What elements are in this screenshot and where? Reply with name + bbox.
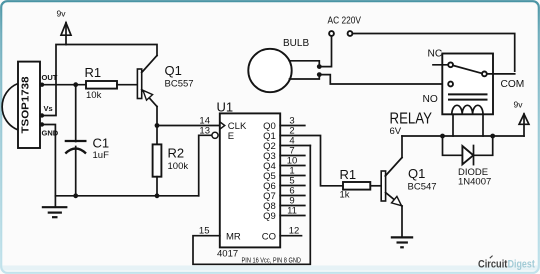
relay switch arm	[453, 66, 482, 74]
node: OUT junction	[73, 82, 78, 87]
wire: 9v rail to Vs riser	[42, 45, 66, 116]
svg-text:9v: 9v	[514, 100, 524, 110]
svg-text:4017: 4017	[217, 249, 238, 260]
wire: collector rail to 9v	[402, 135, 524, 137]
pin GND of TSOP1738	[40, 122, 59, 137]
svg-text:11: 11	[287, 205, 297, 216]
svg-text:Q9: Q9	[263, 211, 276, 222]
ground (right)	[391, 237, 413, 247]
node: C1 to ground rail	[73, 193, 78, 198]
pin 3 stub Q0	[280, 115, 305, 126]
pin 6 stub Q7	[280, 185, 305, 196]
svg-text:TSOP1738: TSOP1738	[19, 76, 31, 133]
svg-text:Circuit: Circuit	[478, 259, 508, 271]
resistor R1 1k	[340, 167, 382, 201]
pin Vs of TSOP1738	[40, 104, 53, 118]
pin 5 stub Q6	[280, 175, 305, 186]
svg-text:R2: R2	[168, 146, 185, 161]
svg-text:COM: COM	[501, 79, 525, 90]
svg-text:NO: NO	[423, 94, 438, 105]
wire: GND pin down to ground rail	[42, 125, 55, 196]
svg-text:15: 15	[199, 226, 210, 237]
AC 220V source	[328, 16, 362, 36]
svg-text:MR: MR	[226, 231, 241, 242]
svg-text:CO: CO	[262, 231, 276, 242]
IR receiver TSOP1738	[2, 62, 40, 148]
power 9v (left)	[57, 9, 72, 45]
svg-text:AC 220V: AC 220V	[328, 16, 362, 27]
node: R2 to ground rail	[155, 193, 160, 198]
wire: OUT to R1 and C1 node	[42, 84, 86, 86]
contact NO	[423, 82, 454, 105]
wire: AC left terminal to bulb top	[319, 36, 331, 66]
svg-text:Q1: Q1	[165, 63, 182, 78]
svg-text:BC547: BC547	[408, 182, 437, 193]
pin 7 stub Q3	[280, 145, 305, 156]
transistor Q1 BC547	[381, 136, 436, 237]
wire: AC right terminal to COM	[353, 34, 515, 72]
wire: 9v rail to Q1 emitter	[66, 45, 157, 56]
pin 2 wire Q1 to R1 1k	[280, 125, 343, 186]
svg-text:C1: C1	[93, 136, 110, 151]
svg-text:E: E	[228, 131, 234, 142]
resistor R2 100k	[153, 126, 189, 196]
svg-text:OUT: OUT	[42, 73, 58, 82]
node: bulb bottom terminal	[317, 72, 322, 77]
svg-text:R1: R1	[85, 65, 102, 80]
svg-text:NC: NC	[428, 48, 443, 59]
svg-text:13: 13	[199, 125, 210, 136]
svg-text:6V: 6V	[390, 126, 402, 137]
wire: Q1 collector down to CLK node	[156, 107, 158, 126]
node: collector / R2 / CLK junction	[155, 123, 160, 128]
ground rail	[55, 195, 198, 197]
pin 9 stub Q8	[280, 195, 305, 206]
wire: CLK node to U1 pin 14	[157, 115, 220, 126]
resistor R1 10k	[85, 65, 118, 101]
svg-text:Digest: Digest	[508, 259, 536, 271]
svg-text:Q1: Q1	[408, 166, 425, 181]
diode D1 1N4007	[443, 136, 493, 188]
svg-text:12: 12	[289, 226, 300, 237]
svg-text:BC557: BC557	[165, 79, 194, 90]
svg-text:1uF: 1uF	[93, 150, 110, 161]
wire: E pin to ground rail	[199, 125, 212, 196]
pin 4 wire Q2 to MR loop	[280, 135, 310, 146]
pin 10 stub Q4	[280, 155, 305, 166]
transistor Q1 BC557	[137, 56, 193, 107]
svg-text:9v: 9v	[57, 9, 67, 19]
capacitor C1 1uF	[65, 85, 109, 196]
power 9v (right)	[514, 100, 529, 137]
pin 1 stub Q5	[280, 165, 305, 176]
wire: MR pin 15 loop to Q2	[193, 146, 310, 265]
svg-text:1N4007: 1N4007	[458, 177, 491, 188]
pin 11 stub Q9	[280, 205, 305, 216]
node: diode right junction	[490, 134, 495, 139]
ground	[42, 196, 68, 217]
node: bulb top terminal	[317, 64, 322, 69]
svg-text:100k: 100k	[168, 161, 189, 172]
pin OUT of TSOP1738	[40, 73, 58, 87]
lamp BULB	[248, 38, 319, 92]
wire: R1 to Q1 base	[117, 84, 137, 86]
svg-text:BULB: BULB	[283, 38, 309, 49]
pin 12 stub CO	[280, 226, 301, 237]
svg-text:1k: 1k	[340, 190, 350, 201]
contact COM	[482, 72, 524, 90]
wire: relay coil terminals down	[453, 114, 483, 136]
svg-text:U1: U1	[217, 100, 234, 115]
wire: bulb bottom to relay NO	[319, 75, 448, 84]
contact NC	[428, 48, 454, 67]
relay K1 body	[390, 54, 494, 138]
svg-text:R1: R1	[340, 167, 357, 182]
logo CircuitDigest	[478, 256, 535, 271]
svg-text:Vs: Vs	[44, 104, 53, 113]
node: diode left junction	[440, 134, 445, 139]
IC U1 4017	[212, 100, 301, 265]
svg-text:10k: 10k	[86, 90, 102, 101]
